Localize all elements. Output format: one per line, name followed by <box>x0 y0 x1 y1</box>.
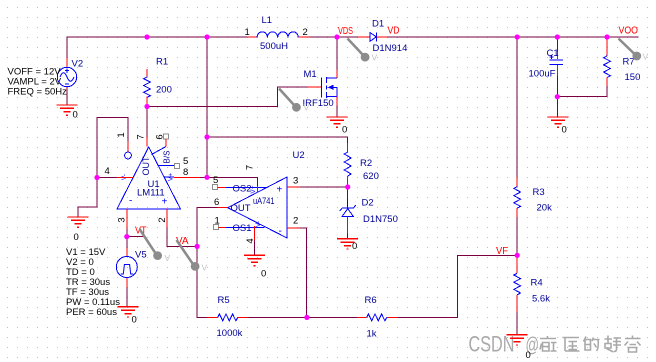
wire U2 OUT to VA node <box>197 208 218 247</box>
node VDS label <box>338 26 353 37</box>
wire top rail V2 to L1 <box>67 37 247 58</box>
node VD label <box>388 26 400 37</box>
capacitor C1 <box>529 48 564 80</box>
svg-text:150: 150 <box>625 72 641 83</box>
MOSFET M1 <box>303 69 338 109</box>
junction U1 pin 4 ground <box>94 175 99 180</box>
U1 pin 3 <box>117 209 128 229</box>
wire R5 to R5-R6 junction <box>248 316 307 318</box>
svg-text:D1: D1 <box>372 19 384 30</box>
probe V at VA <box>177 240 208 273</box>
svg-text:0: 0 <box>132 315 137 326</box>
svg-text:R3: R3 <box>533 187 545 198</box>
svg-text:R1: R1 <box>156 57 168 68</box>
wire R7 bottom to C1 junction <box>557 86 607 97</box>
svg-text:6: 6 <box>214 197 219 208</box>
svg-text:0: 0 <box>73 110 78 121</box>
svg-text:+: + <box>162 197 168 208</box>
wire U1 pin 2 to VA node <box>167 228 197 246</box>
U2 pin 3 <box>287 176 300 188</box>
svg-text:V-: V- <box>255 221 262 227</box>
svg-text:VOO: VOO <box>619 26 639 37</box>
svg-text:V5: V5 <box>135 250 147 261</box>
U2 pin 2 <box>287 216 299 228</box>
svg-text:OS2: OS2 <box>233 184 252 195</box>
resistor R7 <box>604 37 641 86</box>
wire V+ rail to R2 top <box>207 137 348 143</box>
wire VT node stub <box>127 236 145 238</box>
junction node VT <box>124 234 129 239</box>
probe V at VT <box>140 229 171 263</box>
zener diode D2 <box>340 198 398 234</box>
op-amp U2 uA741 <box>228 150 305 238</box>
svg-text:R5: R5 <box>218 295 230 306</box>
U2 pin 1 OS1 <box>214 216 265 235</box>
resistor R2 <box>344 143 379 187</box>
svg-text:D2: D2 <box>362 198 374 209</box>
junction R7 top <box>604 34 609 39</box>
wire U2 pin 3 to R2 bottom junction <box>300 186 348 188</box>
junction node VA <box>195 244 200 249</box>
svg-text:5.6k: 5.6k <box>532 294 550 305</box>
probe V at M1 gate <box>279 89 310 113</box>
wire R4 to ground <box>516 312 518 335</box>
svg-text:2: 2 <box>303 27 308 38</box>
wire V2 to ground <box>66 90 68 105</box>
svg-text:FREQ = 50Hz: FREQ = 50Hz <box>8 87 68 98</box>
svg-text:100uF: 100uF <box>529 69 556 80</box>
wire VT node to V5 <box>126 237 128 248</box>
junction C1 top <box>555 34 560 39</box>
svg-text:uA741: uA741 <box>253 196 275 207</box>
svg-text:1000k: 1000k <box>217 328 243 339</box>
svg-text:200: 200 <box>156 85 172 96</box>
ground 0 at R4 <box>507 335 531 361</box>
svg-text:L1: L1 <box>262 15 273 26</box>
svg-text:V: V <box>643 52 649 62</box>
svg-text:6: 6 <box>155 134 166 139</box>
U2 pin 4 <box>245 221 262 244</box>
svg-text:1: 1 <box>215 216 220 227</box>
ground 0 at C1 <box>547 117 568 136</box>
svg-text:20k: 20k <box>537 203 553 214</box>
svg-text:OS1: OS1 <box>233 223 252 234</box>
ground 0 at D2 <box>337 239 358 252</box>
svg-text:R7: R7 <box>623 57 635 68</box>
wire C1 bottom to junction <box>556 76 558 97</box>
svg-text:V: V <box>304 103 310 113</box>
junction R2 D2 <box>345 184 350 189</box>
wire D1 cathode to VOO <box>387 36 638 38</box>
ground 0 at V5 <box>117 307 138 326</box>
U1 pin 5 <box>158 156 188 168</box>
wire L1 to VDS node <box>310 36 337 38</box>
wire D2 anode to ground <box>347 233 349 238</box>
resistor R3 <box>514 177 552 217</box>
svg-text:+: + <box>277 185 283 196</box>
svg-text:D1N914: D1N914 <box>373 43 408 54</box>
svg-text:M1: M1 <box>304 69 317 80</box>
wire R1 bottom junction to U1 pin 7 <box>146 107 148 137</box>
wire V5 to ground <box>126 287 128 306</box>
pulse source V5 <box>116 248 146 287</box>
diode D1 <box>358 19 408 55</box>
svg-text:C1: C1 <box>547 48 559 59</box>
probe V at VOO <box>619 39 649 62</box>
svg-text:R4: R4 <box>531 278 543 289</box>
svg-text:0: 0 <box>261 269 266 280</box>
node VT label <box>135 226 147 237</box>
junction R1 bottom <box>144 104 149 109</box>
wire M1 source to ground <box>336 106 338 117</box>
resistor R5 <box>207 295 247 339</box>
svg-text:0: 0 <box>562 125 567 136</box>
svg-text:-: - <box>279 226 282 237</box>
junction node VF <box>515 253 520 258</box>
wire R5-R6 junction to R6 <box>307 316 357 318</box>
wire R6 to VF node <box>398 255 518 317</box>
svg-text:1: 1 <box>245 27 250 38</box>
svg-text:-: - <box>129 196 132 207</box>
svg-text:500uH: 500uH <box>260 41 288 52</box>
svg-text:VD: VD <box>388 26 400 37</box>
svg-text:OUT: OUT <box>231 203 251 214</box>
wire R2 bottom junction to D2 <box>347 187 349 199</box>
svg-text:3: 3 <box>117 217 128 222</box>
svg-text:OUT: OUT <box>141 156 151 176</box>
wire U2 pin 4 to ground <box>254 240 256 255</box>
svg-text:2: 2 <box>157 217 168 222</box>
junction node VDS <box>334 34 339 39</box>
wire U1 pin 4 to ground <box>78 178 97 218</box>
svg-text:620: 620 <box>363 171 379 182</box>
svg-text:4: 4 <box>105 166 110 177</box>
junction R5 R6 <box>304 315 309 320</box>
svg-text:1: 1 <box>116 132 127 137</box>
svg-text:R6: R6 <box>365 295 377 306</box>
U2 pin 5 OS2 <box>213 175 267 195</box>
svg-text:VF: VF <box>496 246 508 257</box>
svg-text:LM111: LM111 <box>137 188 165 199</box>
svg-text:B/S: B/S <box>163 151 172 164</box>
wire V+ rail from top rail down <box>206 37 208 177</box>
U1 pin 2 <box>157 209 168 228</box>
U2 pin 7 <box>245 165 258 194</box>
wire U1 pin 4 stub <box>97 177 117 179</box>
svg-text:PER = 60us: PER = 60us <box>66 307 117 318</box>
svg-text:5: 5 <box>183 156 188 167</box>
wire VA node down to R5 <box>197 246 207 317</box>
resistor R6 <box>357 295 398 340</box>
svg-text:3: 3 <box>293 176 298 187</box>
U1 pin 1 with circle <box>116 132 131 159</box>
svg-text:V: V <box>202 263 208 273</box>
svg-text:5: 5 <box>213 175 218 186</box>
svg-text:7: 7 <box>245 165 256 170</box>
resistor R4 <box>514 255 550 312</box>
op-amp U1 LM111 <box>117 147 181 209</box>
U1 pin 4 <box>105 166 134 178</box>
V2 parameters <box>8 66 68 97</box>
svg-text:V: V <box>372 53 378 63</box>
wire U2 pin 2 down to R5-R6 junction <box>299 228 306 318</box>
junction R1 top <box>144 34 149 39</box>
junction C1 bottom <box>555 94 560 99</box>
svg-text:V2: V2 <box>72 59 84 70</box>
wire VDS node down to M1 drain <box>336 37 338 70</box>
watermark chinese characters <box>540 336 641 353</box>
svg-text:0: 0 <box>342 125 347 136</box>
wire R3 to VF node <box>516 218 518 256</box>
ground 0 at U1 pin 4 <box>68 217 89 243</box>
svg-text:7: 7 <box>136 134 147 139</box>
svg-text:D1N750: D1N750 <box>363 214 398 225</box>
wire C1 top from rail <box>556 37 558 52</box>
resistor R1 <box>144 57 172 107</box>
svg-text:VDS: VDS <box>338 26 353 37</box>
U1 pin 8 <box>164 167 201 178</box>
ground 0 at M1 source <box>327 117 348 136</box>
wire V+ junction to U2 pin 7 <box>207 177 258 186</box>
svg-text:1k: 1k <box>367 329 377 340</box>
junction V+ rail top <box>204 34 209 39</box>
wire VDS node to D1 anode <box>337 36 358 38</box>
svg-text:2: 2 <box>293 216 298 227</box>
U1 pin 7 <box>136 134 147 146</box>
watermark CSDN <box>469 332 540 357</box>
inductor L1 <box>245 15 310 52</box>
node VOO label <box>619 26 639 37</box>
wire top rail down to R3 <box>516 37 518 177</box>
node VF label <box>496 246 508 257</box>
wire C1 junction to ground <box>556 97 558 117</box>
wire U1 pin 8 to V+ junction <box>200 176 207 178</box>
voltage source V2 <box>57 58 83 90</box>
wire U1 pin 1 loop to pin 4 node <box>97 117 128 177</box>
svg-text:U2: U2 <box>293 150 305 161</box>
wire R1 bottom to M1 gate <box>147 87 307 107</box>
svg-text:V: V <box>165 253 171 263</box>
svg-text:0: 0 <box>526 350 531 361</box>
junction V+ rail R2 <box>204 134 209 139</box>
svg-text:4: 4 <box>245 238 256 243</box>
probe V at VDS <box>348 39 378 63</box>
junction R3 rail top <box>515 34 520 39</box>
svg-text:V+: V+ <box>250 185 257 193</box>
wire U1 pin 3 to VT node <box>126 229 128 237</box>
ground 0 at U2 pin 4 <box>244 255 266 279</box>
svg-text:R2: R2 <box>360 158 372 169</box>
svg-text:0: 0 <box>74 232 79 243</box>
ground 0 at V2 <box>57 105 78 121</box>
V5 parameters <box>66 247 120 318</box>
svg-text:0: 0 <box>352 241 357 252</box>
U1 pin 6 <box>152 134 169 155</box>
svg-text:8: 8 <box>183 167 188 178</box>
U2 pin 6 OUT <box>214 197 228 208</box>
node VA label <box>176 236 189 247</box>
junction V+ rail U1 pin 8 <box>204 175 209 180</box>
